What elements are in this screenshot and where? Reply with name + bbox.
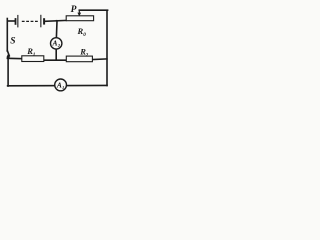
wire top from battery to rheostat (45, 19, 66, 22)
ammeter A1 (55, 79, 67, 91)
wire vertical A2 to middle wire (55, 49, 57, 60)
switch S blade (7, 51, 9, 56)
wire top-right horizontal (79, 9, 107, 11)
wire middle centre segment (44, 59, 67, 61)
resistor R1 box (22, 56, 44, 62)
svg-text:A: A (56, 81, 62, 90)
rheostat wiper arrow (77, 10, 81, 17)
ammeter A2 (51, 38, 62, 49)
svg-text:1: 1 (33, 52, 36, 58)
label R2 (79, 47, 88, 59)
label R1 (26, 46, 36, 58)
label R0 under rheostat (77, 26, 87, 38)
resistor R2 box (66, 56, 92, 62)
svg-text:A: A (52, 39, 58, 48)
svg-text:2: 2 (85, 52, 89, 58)
svg-text:0: 0 (83, 32, 86, 38)
svg-text:P: P (71, 5, 77, 15)
svg-text:S: S (10, 37, 15, 47)
battery B (two cells with dashed link) (15, 15, 45, 28)
wire middle left segment (7, 57, 21, 59)
svg-text:1: 1 (62, 85, 64, 90)
node J junction top (56, 20, 58, 22)
node T-junction left middle (7, 56, 10, 59)
wire right vertical (106, 10, 108, 85)
battery cell 2 long plate (40, 15, 41, 27)
battery dashed link (22, 20, 39, 22)
rheostat R0 box (66, 16, 93, 21)
wire left vertical (lower) (7, 56, 9, 87)
battery cell 1 short plate (15, 18, 17, 25)
wire middle right segment (92, 58, 107, 61)
battery cell 2 short plate (43, 18, 45, 24)
wire bottom horizontal (8, 84, 107, 86)
wire vertical J to ammeter A2 (55, 21, 58, 37)
battery cell 1 long plate (17, 15, 18, 28)
wire top-left from corner to battery (7, 20, 15, 22)
wire left vertical (upper, with corner overshoot) (6, 19, 8, 52)
